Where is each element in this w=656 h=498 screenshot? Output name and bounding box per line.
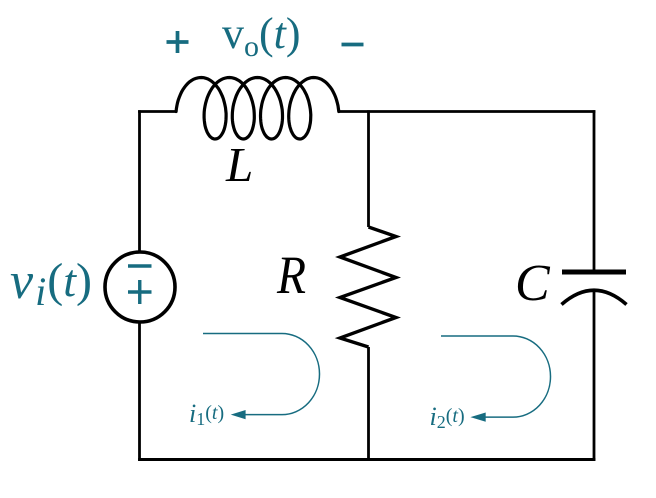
capacitor C top plate bbox=[562, 270, 626, 275]
wire right vertical bottom bbox=[593, 290, 596, 461]
wire left vertical (bottom part, source bottom lead) bbox=[138, 322, 141, 461]
resistor R zigzag bbox=[340, 227, 396, 347]
voltage source vi circle bbox=[105, 252, 175, 322]
label R resistor value bbox=[277, 244, 306, 306]
capacitor C bottom curved plate bbox=[562, 290, 627, 304]
mesh current arrowhead i1 bbox=[231, 410, 246, 419]
wire top right segment bbox=[340, 110, 596, 113]
wire middle vertical bottom bbox=[367, 347, 370, 461]
mesh current arrow i2 bbox=[441, 336, 551, 417]
wire left vertical (top part, source top lead) bbox=[138, 110, 141, 252]
label i2(t) mesh current 2 bbox=[430, 402, 465, 433]
wire middle vertical top bbox=[367, 110, 370, 227]
wire right vertical top bbox=[593, 110, 596, 272]
vo polarity minus sign bbox=[342, 43, 364, 47]
wire top left lead bbox=[138, 110, 175, 113]
vo polarity plus sign bbox=[167, 31, 189, 53]
voltage source minus sign bbox=[128, 264, 152, 267]
mesh current arrow i1 bbox=[203, 334, 320, 415]
label vo(t) voltage across inductor bbox=[222, 8, 301, 64]
label C capacitor value bbox=[515, 254, 550, 313]
label vi(t) source voltage bbox=[10, 252, 92, 315]
voltage source plus sign bbox=[128, 280, 152, 304]
inductor L coil bbox=[176, 78, 339, 140]
wire bottom horizontal bbox=[138, 458, 595, 461]
label i1(t) mesh current 1 bbox=[189, 399, 224, 430]
label L inductor value bbox=[226, 136, 253, 193]
mesh current arrowhead i2 bbox=[470, 413, 485, 422]
